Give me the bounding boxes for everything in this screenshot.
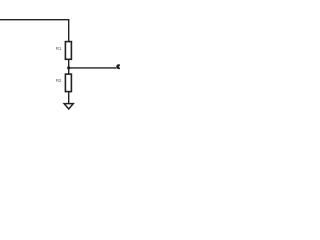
wire: R1 bottom to node <box>68 59 70 74</box>
wire: R2 bottom to ground <box>68 92 70 104</box>
resistor R2 <box>65 74 71 92</box>
wire: top rail from left edge to corner, down to R1 <box>0 20 69 42</box>
svg-text:R1: R1 <box>56 46 62 51</box>
output terminal <box>116 64 121 69</box>
node junction dot <box>67 66 70 69</box>
resistor R1 <box>65 42 71 60</box>
svg-text:R2: R2 <box>56 78 62 83</box>
wire: node to output terminal <box>69 67 117 69</box>
ground <box>64 104 73 109</box>
